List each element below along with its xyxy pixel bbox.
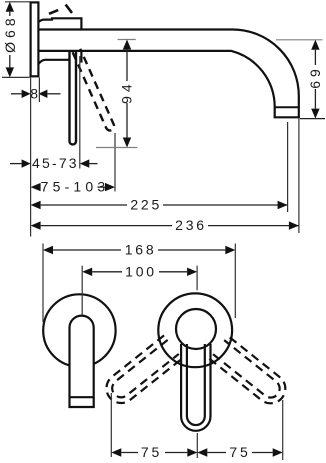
left escutcheon circle [43, 294, 115, 366]
dashed loop right [209, 336, 291, 410]
dim 69 [276, 40, 325, 119]
cartridge top [38, 18, 81, 29]
ext line 100 left [81, 266, 83, 315]
ext line lever closed [79, 56, 81, 169]
svg-text:45-73: 45-73 [32, 155, 79, 171]
ext line outlet center [287, 122, 289, 212]
lever up dash 2 [66, 5, 72, 13]
dim 8 [11, 85, 61, 101]
svg-text:236: 236 [175, 217, 207, 233]
ext line 75 left [110, 393, 112, 457]
ext line 100 right [196, 266, 198, 291]
dim 75 left [111, 444, 197, 460]
svg-text:75: 75 [229, 444, 250, 460]
dim Ø68 [2, 2, 30, 78]
spout top outline [38, 30, 298, 118]
ext line 75 right [282, 400, 284, 460]
dim 100 [82, 263, 197, 279]
dim 75 right [197, 444, 282, 460]
aerator band line [70, 396, 94, 398]
svg-text:69: 69 [307, 65, 323, 89]
svg-text:168: 168 [125, 242, 157, 258]
dim 225 [31, 197, 288, 214]
loop handle [181, 344, 210, 431]
ext line 75 centre [196, 433, 198, 458]
ext line lever open [114, 133, 116, 192]
handle hub [176, 309, 216, 349]
ext line 168 left [42, 244, 44, 323]
dim 45-73 [10, 155, 98, 171]
ext line outlet front [298, 118, 300, 233]
lever open dashed [73, 49, 115, 131]
dim 168 [43, 242, 235, 258]
svg-text:Ø68: Ø68 [2, 14, 18, 52]
spout front bar [70, 316, 94, 407]
dim 236 [31, 217, 299, 234]
svg-text:94: 94 [119, 80, 135, 104]
collar bottom [38, 60, 68, 64]
ext line wall face [30, 78, 32, 237]
svg-text:75: 75 [141, 444, 162, 460]
dashed loop left [100, 335, 182, 409]
right escutcheon circle [158, 293, 232, 367]
dim 94 [96, 40, 138, 148]
svg-text:225: 225 [130, 197, 162, 213]
svg-text:75-103: 75-103 [41, 179, 110, 195]
spout bottom outline [38, 51, 274, 117]
svg-text:100: 100 [125, 263, 157, 279]
aerator line [275, 106, 299, 108]
outlet bottom [274, 116, 300, 118]
ext line plate front [38, 78, 40, 103]
wall plate [31, 2, 39, 76]
lever up dash 1 [49, 10, 58, 14]
lever closed [70, 52, 77, 144]
ext line 168 right [234, 244, 236, 319]
dim 75-103 [31, 179, 115, 195]
body edge below spout [80, 52, 82, 63]
